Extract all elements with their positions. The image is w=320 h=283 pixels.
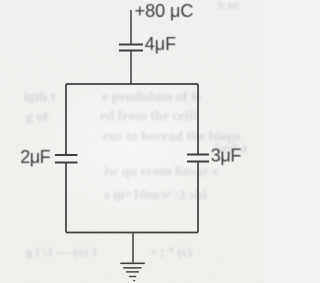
- capacitor C1 4uF (bottom plate): [119, 50, 143, 52]
- ground bar 4: [129, 276, 136, 278]
- ground dot: [133, 280, 135, 282]
- circuit ink: [55, 10, 209, 281]
- ground bar 1: [120, 262, 145, 264]
- wire: loop bottom edge: [66, 232, 198, 234]
- wire: top lead down to C1: [130, 10, 132, 45]
- ground bar 3: [126, 271, 139, 273]
- svg-text:+80: +80: [135, 1, 166, 21]
- svg-text:4μF: 4μF: [145, 34, 176, 54]
- svg-text:e pendulum of le: e pendulum of le: [102, 90, 201, 105]
- wire: loop right edge lower segment: [197, 162, 199, 233]
- wire: bottom lead to ground: [132, 233, 134, 264]
- capacitor C2 2uF (top plate): [55, 154, 78, 156]
- svg-text:iw qu svom linsar s: iw qu svom linsar s: [104, 165, 219, 180]
- capacitor C2 2uF (bottom plate): [55, 162, 78, 164]
- svg-text:igth t: igth t: [24, 90, 56, 105]
- wire: loop left edge lower segment: [65, 163, 67, 233]
- svg-text:÷ ; * (c): ÷ ; * (c): [150, 244, 192, 259]
- svg-text:b nt: b nt: [218, 0, 238, 12]
- wire: loop left edge upper segment: [65, 84, 67, 155]
- svg-text:g of: g of: [26, 110, 49, 125]
- svg-text:μC: μC: [170, 1, 193, 21]
- svg-text:3μF: 3μF: [211, 146, 242, 166]
- wire: loop top edge: [66, 83, 198, 85]
- svg-text:2μF: 2μF: [20, 147, 50, 167]
- capacitor C3 3uF (bottom plate): [187, 161, 209, 163]
- bleed-through background text (back of page): [24, 0, 247, 259]
- svg-text:g ( \1 — (o) 1: g ( \1 — (o) 1: [26, 244, 98, 259]
- svg-text:ed from the ceili: ed from the ceili: [100, 109, 197, 124]
- svg-text:s ɡí=10m/s² \1 sbi: s ɡí=10m/s² \1 sbi: [104, 188, 207, 203]
- wire: loop right edge upper segment: [197, 84, 199, 155]
- wire: C1 to loop top: [130, 51, 132, 85]
- capacitor C1 4uF (top plate): [119, 44, 143, 46]
- ground bar 2: [123, 267, 141, 269]
- capacitor C3 3uF (top plate): [187, 154, 209, 156]
